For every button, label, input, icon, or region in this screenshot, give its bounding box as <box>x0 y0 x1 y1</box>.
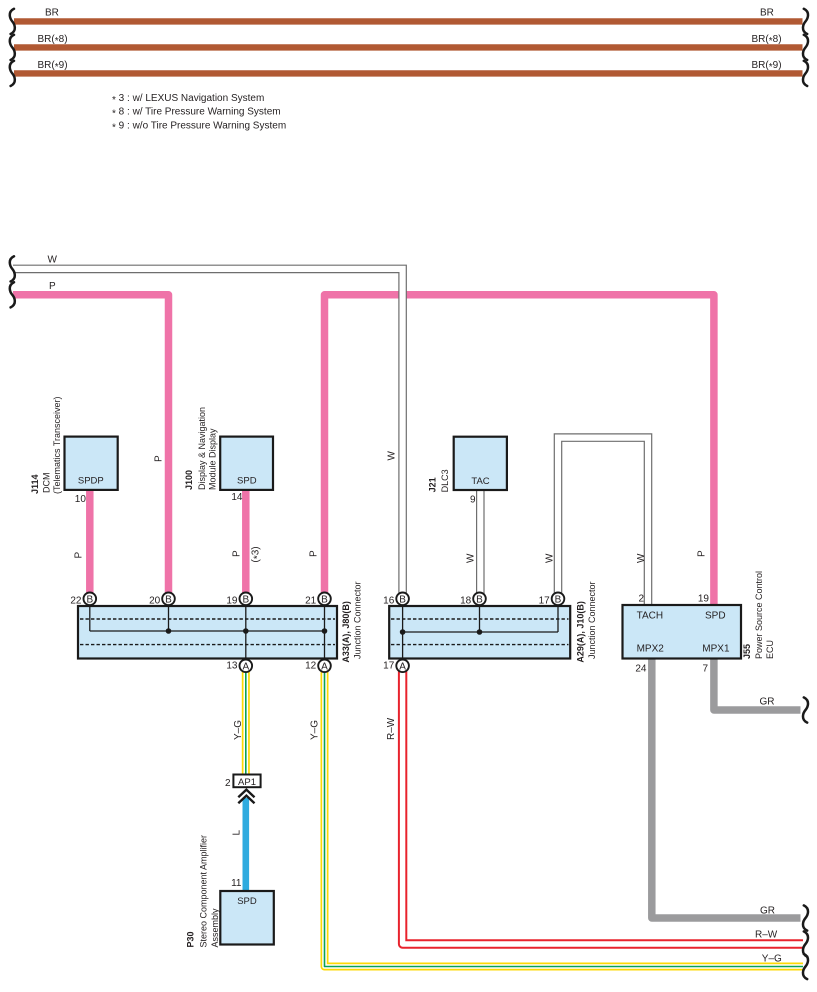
label Y-G (bottom wire) <box>762 954 782 965</box>
label W (vertical x402.6) <box>387 451 398 461</box>
svg-text:R–W: R–W <box>386 717 397 740</box>
svg-text:B: B <box>399 594 406 605</box>
svg-text:AP1: AP1 <box>238 777 256 788</box>
svg-text:P30: P30 <box>186 931 196 947</box>
continuation curl BR(*9) left <box>10 61 15 86</box>
svg-text:SPD: SPD <box>237 896 257 907</box>
svg-text:SPD: SPD <box>705 611 726 622</box>
label P (vertical x168.5) <box>154 455 165 462</box>
label Display & Navigation <box>197 407 207 490</box>
svg-text:TAC: TAC <box>471 476 489 487</box>
continuation curl R-W right <box>803 931 808 956</box>
continuation curl W left <box>10 256 15 281</box>
svg-text:ECU: ECU <box>765 640 775 659</box>
label ECU <box>765 640 775 659</box>
wire BR (brown, top) <box>14 18 803 24</box>
svg-text:MPX2: MPX2 <box>637 644 665 655</box>
svg-text:17: 17 <box>383 661 395 672</box>
label P (wire J55 pin19) <box>697 550 708 557</box>
svg-text:TACH: TACH <box>637 611 663 622</box>
svg-text:SPD: SPD <box>237 476 257 487</box>
svg-text:2: 2 <box>638 594 644 605</box>
pin circle 20 B <box>149 593 175 607</box>
note legend <box>112 93 286 133</box>
svg-text:11: 11 <box>231 878 242 889</box>
svg-text:J114: J114 <box>30 474 40 494</box>
pin circle 21 B <box>305 593 331 607</box>
continuation curl BR(*8) right <box>803 35 808 60</box>
wire P from J114 pin 10 to pin 22 <box>86 489 94 599</box>
continuation curl BR(*8) left <box>10 35 15 60</box>
label P (wire pin21) <box>309 550 320 557</box>
label DCM <box>41 473 51 494</box>
label J114 <box>30 474 40 494</box>
svg-text:16: 16 <box>383 595 395 606</box>
label W horizontal <box>48 255 58 266</box>
wire Y-G from pin 12A to right edge <box>325 666 804 967</box>
label W (wire pin17B) <box>545 553 556 563</box>
svg-text:B: B <box>555 594 562 605</box>
svg-text:MPX1: MPX1 <box>702 644 730 655</box>
label P (wire pin22) <box>74 552 85 559</box>
svg-text:W: W <box>545 553 556 563</box>
continuation curl BR(*9) right <box>803 61 808 86</box>
svg-text:* 9 : w/o Tire Pressure Warnin: * 9 : w/o Tire Pressure Warning System <box>112 120 286 133</box>
junction connector A29(A), J10(B) <box>389 599 570 666</box>
pin circle 17 B <box>539 593 565 607</box>
pin circle 17 A <box>383 660 409 673</box>
wire W loop from pin 17B to J55 pin 2 <box>558 438 648 606</box>
continuation curl GR pin24 right <box>803 905 808 930</box>
pin 7 label J55 <box>702 664 708 675</box>
label A33(A), J80(B) <box>341 601 351 663</box>
continuation curl GR pin7 right <box>803 697 808 722</box>
svg-text:Module Display: Module Display <box>207 428 217 490</box>
pin 19 label J55 <box>698 594 710 605</box>
wire P (pink) right segment pin21 to J55 pin 19 <box>325 295 714 606</box>
svg-text:Stereo Component Amplifier: Stereo Component Amplifier <box>199 835 209 948</box>
svg-text:B: B <box>321 594 328 605</box>
label BR(*8) left <box>38 34 68 47</box>
svg-text:B: B <box>86 594 93 605</box>
wire W from J21 pin 9 to pin 18 <box>476 490 485 599</box>
svg-text:P: P <box>309 550 320 557</box>
svg-text:17: 17 <box>539 595 551 606</box>
pin circle 13 A <box>226 660 252 673</box>
svg-text:W: W <box>387 451 398 461</box>
ECU J55 Power Source Control <box>623 605 742 659</box>
wire BR(*9) (brown, third) <box>14 70 803 76</box>
component P30 Stereo Component Amplifier Assembly <box>220 891 273 945</box>
label J100 <box>184 470 194 490</box>
label R-W (wire 17A) <box>386 717 397 740</box>
svg-text:BR: BR <box>45 8 59 19</box>
pin 11 label P30 <box>231 878 242 889</box>
svg-text:7: 7 <box>702 664 708 675</box>
svg-text:SPDP: SPDP <box>78 476 104 487</box>
label P30 <box>186 931 196 947</box>
svg-text:21: 21 <box>305 595 317 606</box>
label J21 <box>428 477 438 492</box>
svg-text:A: A <box>399 661 406 672</box>
label R-W (bottom wire) <box>755 930 778 941</box>
svg-text:P: P <box>49 281 56 292</box>
label BR(*9) left <box>38 60 68 73</box>
label L (wire AP1-P30) <box>232 830 243 836</box>
pin circle 12 A <box>305 660 331 673</box>
svg-text:P: P <box>697 550 708 557</box>
svg-text:* 8 : w/ Tire Pressure Warning: * 8 : w/ Tire Pressure Warning System <box>112 107 281 120</box>
svg-text:BR: BR <box>760 8 774 19</box>
svg-text:P: P <box>154 455 165 462</box>
label W (wire pin18) <box>466 553 477 563</box>
label J55 <box>742 644 752 659</box>
svg-text:20: 20 <box>149 595 161 606</box>
svg-text:J21: J21 <box>428 477 438 492</box>
component J114 DCM <box>65 437 118 490</box>
svg-text:W: W <box>636 553 647 563</box>
label Assembly <box>210 908 220 948</box>
continuation curl Y-G right <box>803 954 808 979</box>
svg-text:W: W <box>48 255 58 266</box>
svg-text:Display & Navigation: Display & Navigation <box>197 407 207 490</box>
label BR(*8) right <box>752 34 782 47</box>
wire GR from J55 pin 7 to right edge <box>714 658 801 710</box>
svg-text:DCM: DCM <box>41 473 51 494</box>
label A29(A), J10(B) <box>575 601 585 663</box>
svg-text:Y–G: Y–G <box>762 954 782 965</box>
svg-text:B: B <box>476 594 483 605</box>
svg-text:10: 10 <box>75 494 87 505</box>
svg-text:B: B <box>242 594 249 605</box>
label BR(*9) right <box>752 60 782 73</box>
continuation curl BR right <box>803 9 808 34</box>
pin 24 label J55 <box>635 664 647 675</box>
label P horizontal <box>49 281 56 292</box>
pin circle 19 B <box>226 593 252 607</box>
svg-text:L: L <box>232 830 243 836</box>
svg-text:Y–G: Y–G <box>233 720 244 740</box>
label Power Source Control <box>754 571 764 659</box>
svg-text:19: 19 <box>698 594 710 605</box>
pin circle 22 B <box>70 593 96 607</box>
svg-text:* 3 : w/ LEXUS Navigation Syst: * 3 : w/ LEXUS Navigation System <box>112 93 264 106</box>
wire L from AP1 to P30 pin 11 <box>243 798 250 891</box>
label GR (pin 7 wire) <box>760 697 775 708</box>
label Y-G (wire 13A) <box>233 720 244 740</box>
svg-text:2: 2 <box>225 778 231 789</box>
wire BR(*8) (brown, second) <box>14 44 803 50</box>
label Module Display <box>207 428 217 490</box>
label Junction Connector (A33) <box>353 581 363 659</box>
svg-text:Junction Connector: Junction Connector <box>353 581 363 659</box>
pin 10 label J114 <box>75 494 87 505</box>
svg-text:W: W <box>466 553 477 563</box>
svg-text:DLC3: DLC3 <box>440 469 450 492</box>
svg-text:B: B <box>165 594 172 605</box>
label DLC3 <box>440 469 450 492</box>
svg-text:Power Source Control: Power Source Control <box>754 571 764 659</box>
svg-text:19: 19 <box>226 595 238 606</box>
wire P from J100 pin 14 to pin 19 <box>242 489 250 599</box>
component J100 Display & Navigation Module Display <box>220 437 273 490</box>
svg-text:9: 9 <box>470 495 476 506</box>
label Junction Connector (A29) <box>587 581 597 659</box>
svg-text:24: 24 <box>635 664 647 675</box>
pin 2 label J55 <box>638 594 644 605</box>
label (*3) (wire pin19) <box>251 546 264 562</box>
label Stereo Component Amplifier <box>199 835 209 948</box>
wire W from left edge to pin 16 <box>13 269 403 599</box>
pin circle 18 B <box>460 593 486 607</box>
svg-text:A29(A), J10(B): A29(A), J10(B) <box>575 601 585 663</box>
label P (wire pin19) <box>232 550 243 557</box>
svg-text:P: P <box>232 550 243 557</box>
wire R-W from pin 17A to right edge <box>403 666 803 944</box>
component J21 DLC3 <box>454 437 507 490</box>
pin 14 label J100 <box>231 492 243 503</box>
wire P (pink) left segment to pin 20 <box>13 295 169 599</box>
svg-text:14: 14 <box>231 492 243 503</box>
svg-text:A: A <box>321 661 328 672</box>
wire Y-G from pin 13A to AP1 <box>242 666 250 775</box>
svg-text:A: A <box>242 661 249 672</box>
pin 9 label J21 <box>470 495 476 506</box>
svg-text:Y–G: Y–G <box>310 720 321 740</box>
svg-text:12: 12 <box>305 661 317 672</box>
connector AP1 <box>233 775 260 789</box>
pin 2 label AP1 <box>225 778 231 789</box>
svg-text:GR: GR <box>760 906 775 917</box>
label Y-G (wire 12A) <box>310 720 321 740</box>
svg-text:18: 18 <box>460 595 472 606</box>
junction connector A33(A), J80(B) <box>78 599 337 666</box>
label GR (pin 24 wire) <box>760 906 775 917</box>
svg-text:22: 22 <box>70 595 82 606</box>
svg-text:A33(A), J80(B): A33(A), J80(B) <box>341 601 351 663</box>
shield chevron AP1 <box>238 790 254 804</box>
svg-text:13: 13 <box>226 661 238 672</box>
svg-text:J55: J55 <box>742 644 752 659</box>
svg-text:(Telematics Transceiver): (Telematics Transceiver) <box>52 396 62 494</box>
continuation curl BR left <box>10 9 15 34</box>
wire GR from J55 pin 24 to right edge <box>652 658 801 918</box>
continuation curl P left <box>10 282 15 307</box>
label W (wire J55 pin2) <box>636 553 647 563</box>
svg-text:P: P <box>74 552 85 559</box>
pin circle 16 B <box>383 593 409 607</box>
svg-text:R–W: R–W <box>755 930 778 941</box>
label (Telematics Transceiver) <box>52 396 62 494</box>
svg-text:Assembly: Assembly <box>210 908 220 948</box>
label BR left <box>45 8 59 19</box>
svg-text:(*3): (*3) <box>251 546 264 562</box>
svg-text:Junction Connector: Junction Connector <box>587 581 597 659</box>
label BR right <box>760 8 774 19</box>
svg-text:J100: J100 <box>184 470 194 490</box>
svg-text:GR: GR <box>760 697 775 708</box>
